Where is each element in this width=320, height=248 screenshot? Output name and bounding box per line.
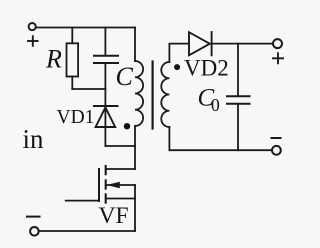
capacitor C0 — [227, 96, 250, 103]
transformer secondary winding — [161, 62, 169, 127]
wire R to C link — [72, 88, 105, 90]
svg-text:VF: VF — [99, 203, 129, 229]
svg-text:R: R — [45, 45, 62, 74]
minus sign input — [27, 216, 40, 218]
svg-text:VD2: VD2 — [184, 56, 229, 81]
transistor VF channel — [105, 166, 107, 203]
plus sign input — [28, 36, 38, 46]
wire C to VD1 and down — [104, 63, 106, 146]
transformer primary winding — [135, 61, 143, 126]
transistor VF gate bar — [98, 169, 100, 201]
wire VD1 anode to drain node — [105, 145, 135, 147]
wire R top lead — [71, 28, 73, 44]
wire drain lead — [106, 168, 135, 170]
wire C0 bottom lead — [237, 104, 239, 151]
wire top rail — [36, 27, 135, 29]
wire source down — [134, 185, 136, 231]
svg-text:VD1: VD1 — [57, 107, 95, 128]
wire VD2 to output + — [212, 43, 273, 45]
svg-text:C: C — [116, 62, 134, 91]
wire primary top lead — [134, 28, 136, 62]
resistor R — [67, 43, 79, 76]
wire bottom right rail — [169, 149, 272, 151]
svg-text:in: in — [23, 124, 45, 154]
wire secondary bottom lead — [168, 127, 170, 150]
transistor body arrow head — [107, 182, 120, 188]
wire R bottom lead — [71, 77, 73, 90]
primary polarity dot — [124, 123, 130, 129]
input - terminal — [30, 227, 39, 236]
secondary polarity dot — [174, 64, 180, 70]
plus sign output — [273, 53, 283, 63]
output - terminal — [272, 146, 281, 155]
wire secondary top lead — [169, 44, 189, 62]
wire bottom rail — [39, 230, 135, 232]
diode VD1 — [94, 106, 118, 127]
wire C top lead — [104, 28, 106, 56]
transformer core — [152, 62, 154, 129]
wire gate stub — [66, 200, 99, 202]
wire C0 top lead — [237, 44, 239, 96]
svg-text:0: 0 — [211, 95, 220, 115]
wire primary bottom to drain — [134, 126, 136, 169]
transistor body arrow line — [107, 184, 135, 186]
input + terminal — [29, 23, 36, 30]
capacitor C — [94, 56, 118, 63]
minus sign output — [272, 137, 281, 139]
diode VD2 — [189, 32, 212, 55]
wire source lead — [106, 198, 135, 200]
output + terminal — [273, 39, 282, 48]
